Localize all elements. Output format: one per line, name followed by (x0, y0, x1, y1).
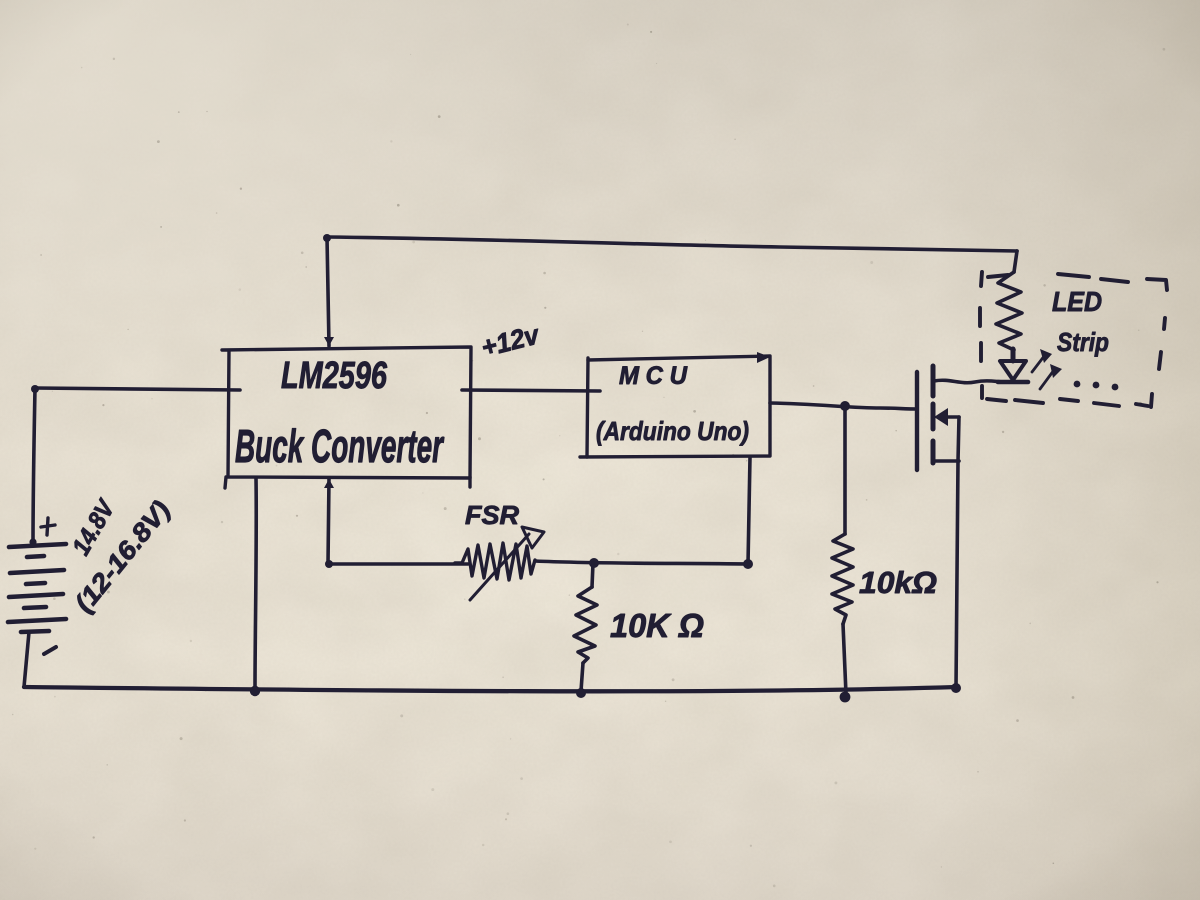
label LED (1052, 286, 1102, 317)
node divider resistor at rail (576, 688, 586, 698)
resistor in LED strip (996, 272, 1022, 350)
node arrow at LM2596 bottom pin (324, 479, 334, 488)
wire FSR out to MCU drop (535, 561, 748, 564)
wire battery + to LM2596 left (35, 388, 240, 390)
wire MOSFET drain to LED (934, 380, 1012, 383)
svg-text:LM2596: LM2596 (281, 353, 388, 396)
node arrow MCU top-right corner (757, 352, 770, 363)
label 10k ohm pulldown (859, 565, 937, 600)
MOSFET Q1 body diode arrow (934, 408, 959, 426)
dashed box LED strip left edge (980, 272, 982, 398)
resistor 10K ohm divider (574, 563, 597, 691)
wire MOSFET source to ground rail (956, 417, 959, 688)
node FSR/MCU junction (743, 559, 753, 569)
LM2596 box (222, 347, 471, 488)
node arrow at LM2596 top pin (324, 337, 334, 346)
svg-text:10K Ω: 10K Ω (610, 607, 704, 644)
dashed box LED strip bottom edge (987, 399, 1148, 406)
label Buck Converter (235, 421, 444, 472)
node LM2596 ground at rail (250, 686, 260, 696)
label +12V (478, 319, 543, 363)
svg-text:M C U: M C U (619, 362, 688, 390)
LED D1 triangle and bar (998, 361, 1028, 382)
MOSFET Q1 gate bar (915, 372, 919, 470)
node divider junction (589, 558, 599, 568)
wire battery - down to ground rail (24, 632, 29, 687)
battery plus sign (41, 518, 55, 535)
label LM2596 (281, 353, 388, 396)
node at top rail left corner (323, 234, 331, 242)
wire MCU out to MOSFET gate (770, 403, 917, 409)
wire top rail (LM2596 top to LED strip) (327, 237, 1017, 251)
wire drop from top rail to LM2596 top (327, 237, 329, 346)
LED D1 anode lead (1011, 349, 1016, 361)
resistor 10k ohm gate pulldown (832, 534, 853, 694)
wire FSR left lead (455, 561, 462, 565)
wire MCU bottom to FSR node (748, 457, 750, 564)
wire bottom ground rail (24, 687, 957, 691)
wire LM2596 +12V out to MCU (462, 390, 600, 391)
LED emission arrows (1032, 349, 1062, 389)
svg-text:Buck Converter: Buck Converter (235, 421, 444, 472)
wire left vertical to battery (29, 388, 36, 546)
FSR variable resistor zigzag (462, 543, 535, 580)
battery minus tick (44, 647, 56, 654)
FSR arrow (470, 527, 544, 600)
node gate/pulldown junction (840, 401, 850, 411)
wire drop from top rail to LED resistor (1014, 251, 1017, 272)
label 14.8V (12-16.8V) (67, 494, 176, 618)
node source corner at rail (951, 683, 961, 693)
node pulldown at rail (840, 692, 851, 703)
svg-text:Strip: Strip (1057, 327, 1109, 357)
label dots ... (1074, 381, 1119, 391)
MCU box (580, 356, 770, 457)
label (Arduino Uno) (596, 416, 749, 446)
wire LM2596 bottom to FSR (325, 478, 468, 568)
label Strip (1057, 327, 1109, 357)
label FSR (465, 500, 519, 530)
node at left rail corner (31, 385, 39, 393)
svg-text:FSR: FSR (465, 500, 519, 530)
svg-text:10kΩ: 10kΩ (859, 565, 937, 600)
wire pulldown drop (843, 406, 847, 534)
dashed box LED strip right edge (1151, 318, 1165, 407)
label MCU (619, 362, 688, 390)
svg-text:(Arduino Uno): (Arduino Uno) (596, 416, 749, 446)
dashed box LED strip top edge (988, 274, 1167, 290)
svg-text:LED: LED (1052, 286, 1102, 317)
MOSFET Q1 channel bars (931, 366, 936, 463)
wire LM2596 bottom-left to ground rail (255, 478, 256, 690)
MOSFET Q1 source bar wire (934, 459, 959, 463)
battery 14.8V pack (8, 544, 66, 632)
label 10K ohm (610, 607, 704, 644)
